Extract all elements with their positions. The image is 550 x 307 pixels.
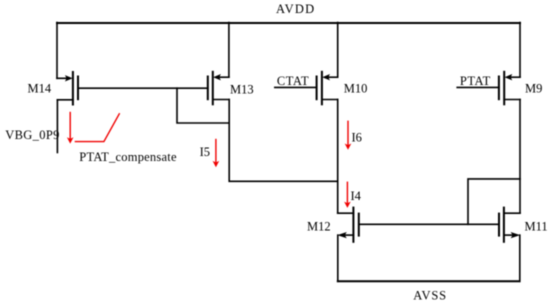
svg-text:M9: M9: [525, 81, 542, 95]
node AVSS rail: [338, 280, 520, 282]
wire M13 source drop: [228, 23, 230, 78]
wire M10 source drop: [337, 23, 339, 78]
transistor M14: [28, 72, 79, 105]
wire M9 source drop: [519, 23, 521, 78]
current arrow I6: [345, 121, 362, 150]
svg-text:M11: M11: [525, 220, 548, 234]
node AVDD rail: [57, 22, 520, 24]
current arrow I5: [200, 140, 220, 168]
transistor M9: [499, 72, 542, 105]
transistor M11: [499, 208, 548, 242]
transistor M12: [307, 208, 359, 242]
wire M13 gate-drain feedback: [177, 88, 229, 123]
svg-text:M12: M12: [307, 219, 331, 233]
wire M11 gate-drain connection: [468, 179, 520, 224]
svg-text:VBG_0P9: VBG_0P9: [5, 128, 60, 142]
wire M9 drain down to M11 drain: [519, 100, 521, 214]
svg-text:PTAT_compensate: PTAT_compensate: [79, 150, 177, 164]
svg-text:I4: I4: [351, 189, 362, 203]
current arrow VBG_0P9: [67, 113, 74, 144]
svg-text:AVSS: AVSS: [413, 289, 447, 303]
svg-text:M13: M13: [230, 83, 254, 97]
svg-text:AVDD: AVDD: [276, 2, 315, 16]
svg-text:M14: M14: [28, 82, 52, 96]
svg-text:M10: M10: [344, 81, 368, 95]
annotation trim mark (red polyline): [75, 114, 119, 142]
svg-text:I6: I6: [352, 131, 362, 145]
label CTAT: [275, 74, 317, 88]
wire gate M14-M13: [78, 87, 208, 89]
wire M10 drain down to M12 drain: [337, 100, 339, 214]
transistor M13: [208, 72, 254, 105]
svg-text:CTAT: CTAT: [277, 74, 309, 88]
wire gate M12-M11: [359, 223, 499, 225]
wire VBG output: [56, 100, 58, 153]
label PTAT: [457, 74, 499, 88]
wire M14 source drop: [56, 23, 58, 79]
wire M13 drain to mid node: [229, 100, 338, 182]
wire M11 source drop: [519, 235, 521, 281]
current arrow I4: [344, 182, 362, 208]
transistor M10: [317, 72, 368, 105]
svg-text:I5: I5: [200, 145, 210, 159]
wire M12 source drop: [337, 235, 339, 281]
svg-text:PTAT: PTAT: [460, 74, 491, 88]
